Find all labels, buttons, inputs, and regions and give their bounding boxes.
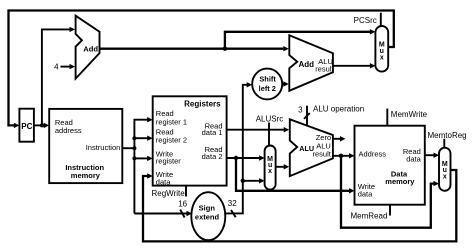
svg-text:memory: memory: [385, 177, 415, 186]
svg-text:ALUSrc: ALUSrc: [256, 114, 284, 123]
svg-text:Instruction: Instruction: [86, 143, 121, 152]
svg-text:result: result: [313, 150, 332, 159]
svg-text:3: 3: [298, 106, 303, 115]
svg-text:Address: Address: [359, 150, 387, 159]
svg-text:data: data: [406, 155, 421, 164]
svg-text:register: register: [156, 156, 182, 165]
svg-text:Shift: Shift: [259, 74, 276, 83]
svg-text:MemWrite: MemWrite: [391, 110, 428, 119]
svg-text:x: x: [380, 55, 384, 62]
svg-text:ALU operation: ALU operation: [313, 104, 364, 113]
svg-text:memory: memory: [71, 171, 101, 180]
svg-text:data: data: [358, 189, 373, 198]
svg-text:4: 4: [54, 62, 59, 71]
svg-text:register 1: register 1: [156, 117, 187, 126]
svg-text:address: address: [55, 126, 82, 135]
svg-text:left 2: left 2: [259, 84, 276, 93]
svg-text:data 2: data 2: [202, 152, 223, 161]
svg-text:x: x: [268, 168, 272, 175]
svg-text:Sign: Sign: [199, 204, 216, 213]
svg-text:PCSrc: PCSrc: [354, 16, 377, 25]
svg-text:RegWrite: RegWrite: [152, 189, 186, 198]
svg-text:Add: Add: [83, 44, 98, 53]
svg-text:32: 32: [228, 199, 237, 208]
svg-text:MemtoReg: MemtoReg: [428, 131, 467, 140]
svg-text:x: x: [443, 173, 447, 180]
svg-text:16: 16: [178, 200, 187, 209]
svg-text:result: result: [315, 65, 334, 74]
svg-text:Registers: Registers: [184, 100, 221, 109]
svg-text:MemRead: MemRead: [351, 211, 388, 220]
svg-text:PC: PC: [21, 122, 32, 131]
svg-text:register 2: register 2: [156, 136, 187, 145]
svg-text:Add: Add: [299, 60, 315, 69]
svg-text:extend: extend: [195, 213, 220, 222]
svg-text:data: data: [156, 178, 171, 187]
svg-text:data 1: data 1: [202, 128, 223, 137]
